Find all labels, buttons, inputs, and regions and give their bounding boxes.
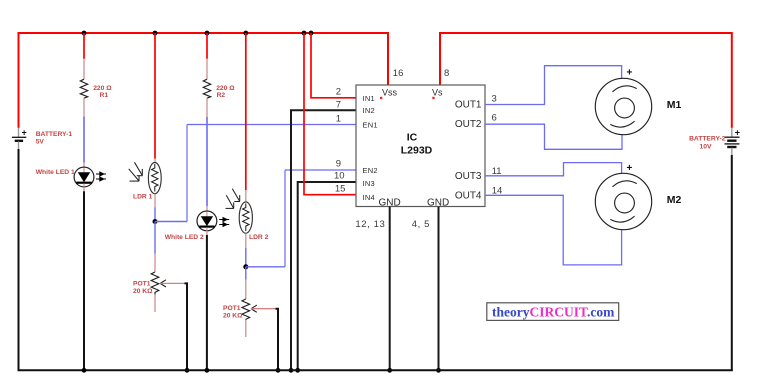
wire: +10V top rail from Vs pin 8 to battery-2 <box>440 33 732 128</box>
svg-text:+: + <box>627 163 633 174</box>
svg-text:2: 2 <box>336 87 341 98</box>
svg-text:5V: 5V <box>36 139 45 146</box>
wire: node A to EN1 riser <box>155 221 187 223</box>
label battery-2 value <box>689 136 726 151</box>
battery B1 BATTERY-1 5V <box>12 128 27 151</box>
wire: EN1 horizontal to IC pin 1 <box>187 124 356 126</box>
wire: ground rail (bottom) <box>18 369 733 371</box>
node: junction IN1 wire/top rail <box>309 31 314 36</box>
node: junction IN4 wire/top rail <box>302 31 307 36</box>
light arrow 2 into LDR1 <box>129 169 140 181</box>
node: junction LDR2/top rail <box>243 31 248 36</box>
label R1 value <box>93 85 112 99</box>
svg-text:BATTERY-1: BATTERY-1 <box>36 131 73 138</box>
wire: IN3 pin 10 to ground rail <box>298 182 356 370</box>
motor M1 <box>595 68 651 135</box>
svg-text:LDR 1: LDR 1 <box>133 194 153 201</box>
wire: OUT4 pin 14 to motor M2 - terminal <box>485 195 622 265</box>
node B: LDR2/POT2/EN2 junction <box>243 264 248 269</box>
svg-text:20 KΩ: 20 KΩ <box>223 312 243 319</box>
pin stub above POT1 <box>154 254 156 273</box>
svg-text:12, 13: 12, 13 <box>355 219 385 230</box>
node A: LDR1/POT1/EN1 junction <box>153 219 158 224</box>
svg-text:220 Ω: 220 Ω <box>216 85 235 92</box>
label POT2 <box>223 305 243 319</box>
wire: IN2 pin 7 to ground rail <box>291 110 356 370</box>
svg-text:R2: R2 <box>217 92 226 99</box>
svg-text:OUT1: OUT1 <box>455 100 482 111</box>
wire: POT2 wiper to ground rail <box>276 309 279 371</box>
pin stub below R2 <box>206 98 208 117</box>
node: LED1/ground rail <box>82 368 87 373</box>
svg-text:POT1: POT1 <box>133 281 151 288</box>
resistor R1 220 ohm <box>80 79 87 98</box>
wire: top rail to resistor R1 <box>83 33 85 59</box>
svg-text:IN1: IN1 <box>363 94 375 103</box>
potentiometer POT1 20k (left) <box>151 272 184 295</box>
svg-text:+: + <box>735 128 740 138</box>
wire: battery-1 negative to ground rail <box>18 149 20 370</box>
svg-text:IC: IC <box>407 132 418 144</box>
pin stub below R1 <box>83 98 85 116</box>
wire: GND pins 12,13 to ground rail <box>389 207 391 371</box>
LED D2 White LED 2 <box>197 211 229 231</box>
svg-text:15: 15 <box>335 184 346 195</box>
node: GND 12,13/ground rail <box>387 368 392 373</box>
wire: R1 to White LED 1 anode <box>83 117 85 163</box>
wire: node A down to POT1 <box>154 222 156 254</box>
battery B2 BATTERY-2 10V <box>725 128 741 156</box>
node: LED2/ground rail <box>205 368 210 373</box>
svg-text:LDR 2: LDR 2 <box>249 234 269 241</box>
svg-text:10V: 10V <box>700 143 712 150</box>
node: junction R2/top rail <box>205 31 210 36</box>
potentiometer POT2 20k (right) <box>242 299 276 320</box>
svg-text:IN3: IN3 <box>363 179 375 188</box>
svg-text:16: 16 <box>393 68 404 79</box>
LDR1 photoresistor <box>129 162 162 193</box>
pin stub below POT2 <box>245 320 247 337</box>
svg-text:BATTERY-2: BATTERY-2 <box>689 136 726 143</box>
wire: IN1 pin 2 to +5V rail <box>311 33 356 98</box>
LDR2 photoresistor <box>226 189 253 234</box>
svg-text:9: 9 <box>336 158 341 169</box>
node: junction R1/top rail <box>82 31 87 36</box>
svg-text:Vss: Vss <box>382 87 398 97</box>
wire: OUT1 pin 3 to motor M1 + terminal <box>485 66 622 105</box>
wire: LDR2 to node B <box>245 248 247 267</box>
label battery-1 value <box>36 131 73 146</box>
svg-text:OUT3: OUT3 <box>455 171 482 182</box>
svg-text:L293D: L293D <box>401 144 433 156</box>
pin stub below LDR1 <box>154 194 156 208</box>
wire: OUT2 pin 6 to motor M1 - terminal <box>485 124 622 149</box>
wire: EN2 riser vertical <box>284 170 286 267</box>
svg-text:8: 8 <box>444 68 449 79</box>
resistor R2 220 ohm <box>203 79 210 98</box>
pin stub below LDR2 <box>245 233 247 248</box>
svg-text:M2: M2 <box>667 194 682 206</box>
light arrow 1 into LDR2 <box>232 189 240 202</box>
pin stub below POT1 <box>154 295 156 313</box>
pin stub above R2 <box>206 59 208 79</box>
op-amp U1: IC L293D body <box>356 85 485 209</box>
wire: POT1 wiper to ground rail <box>185 283 188 370</box>
wire: node B to EN2 riser <box>246 266 285 268</box>
pin stub above LED1 <box>83 163 85 168</box>
wire: top rail to resistor R2 <box>206 33 208 59</box>
svg-text:7: 7 <box>336 99 341 110</box>
svg-text:+: + <box>22 128 27 138</box>
wire: GND pins 4,5 to ground rail <box>438 207 440 371</box>
pin marker Vs <box>432 97 434 99</box>
svg-text:OUT4: OUT4 <box>455 190 482 201</box>
svg-text:POT1: POT1 <box>223 305 241 312</box>
svg-text:EN2: EN2 <box>363 166 378 175</box>
logo theoryCIRCUIT.com <box>487 303 619 321</box>
svg-text:Vs: Vs <box>432 87 443 97</box>
wire: IN4 pin 15 to +5V rail <box>304 33 356 195</box>
wire: top rail to LDR2 <box>245 33 247 190</box>
svg-text:20 KΩ: 20 KΩ <box>133 288 153 295</box>
pin marker Vss <box>380 97 382 99</box>
node: IN3/ground rail <box>295 368 300 373</box>
svg-text:theoryCIRCUIT.com: theoryCIRCUIT.com <box>492 304 615 319</box>
motor M2 <box>595 163 651 230</box>
node: POT2 wiper/ground rail <box>276 368 281 373</box>
wire: battery-2 negative to ground rail <box>731 155 733 370</box>
pin stub above LDR1 <box>154 159 156 164</box>
svg-text:IN2: IN2 <box>363 106 375 115</box>
wire: +5V top rail from battery-1 to Vss pin 16 <box>19 33 389 128</box>
wire: EN1 riser vertical <box>186 125 188 222</box>
label POT1 <box>133 281 153 295</box>
svg-text:White LED 1: White LED 1 <box>36 169 75 176</box>
svg-text:White LED 2: White LED 2 <box>165 234 204 241</box>
node: junction LDR1/top rail <box>153 31 158 36</box>
node: GND 4,5/ground rail <box>436 368 441 373</box>
svg-text:6: 6 <box>492 113 497 124</box>
light arrow 2 into LDR2 <box>226 195 234 208</box>
svg-text:4, 5: 4, 5 <box>412 219 430 230</box>
svg-text:220 Ω: 220 Ω <box>93 85 112 92</box>
pin stub below LED2 <box>206 231 208 235</box>
pin stub above POT2 <box>245 280 247 300</box>
wire: LED1 cathode to ground rail <box>83 191 85 370</box>
svg-text:OUT2: OUT2 <box>455 119 482 130</box>
wire: OUT3 pin 11 to motor M2 + terminal <box>485 163 622 176</box>
light arrow 1 into LDR1 <box>135 162 143 175</box>
wire: LDR1 to node A <box>154 208 156 222</box>
svg-text:R1: R1 <box>100 92 109 99</box>
wire: R2 to White LED 2 anode <box>206 117 208 206</box>
svg-text:+: + <box>627 68 633 79</box>
wire: node B down to POT2 <box>245 267 247 280</box>
pin stub below LED1 <box>83 187 85 191</box>
wire: top rail to LDR1 <box>154 33 156 159</box>
label R2 value <box>216 85 235 99</box>
wire: LED2 cathode to ground rail <box>206 235 208 370</box>
node: IN2/ground rail <box>289 368 294 373</box>
pin stub above LED2 <box>206 206 208 211</box>
pin stub above LDR2 <box>245 190 247 202</box>
svg-text:10: 10 <box>334 171 345 182</box>
svg-text:M1: M1 <box>667 99 682 111</box>
svg-text:3: 3 <box>492 93 497 104</box>
node: POT1 wiper/ground rail <box>185 368 190 373</box>
svg-text:EN1: EN1 <box>363 121 378 130</box>
LED D1 White LED 1 <box>74 167 106 187</box>
svg-text:IN4: IN4 <box>363 193 375 202</box>
svg-text:1: 1 <box>336 113 341 124</box>
wire: EN2 horizontal to IC pin 9 <box>285 169 356 171</box>
pin stub above R1 <box>83 59 85 79</box>
